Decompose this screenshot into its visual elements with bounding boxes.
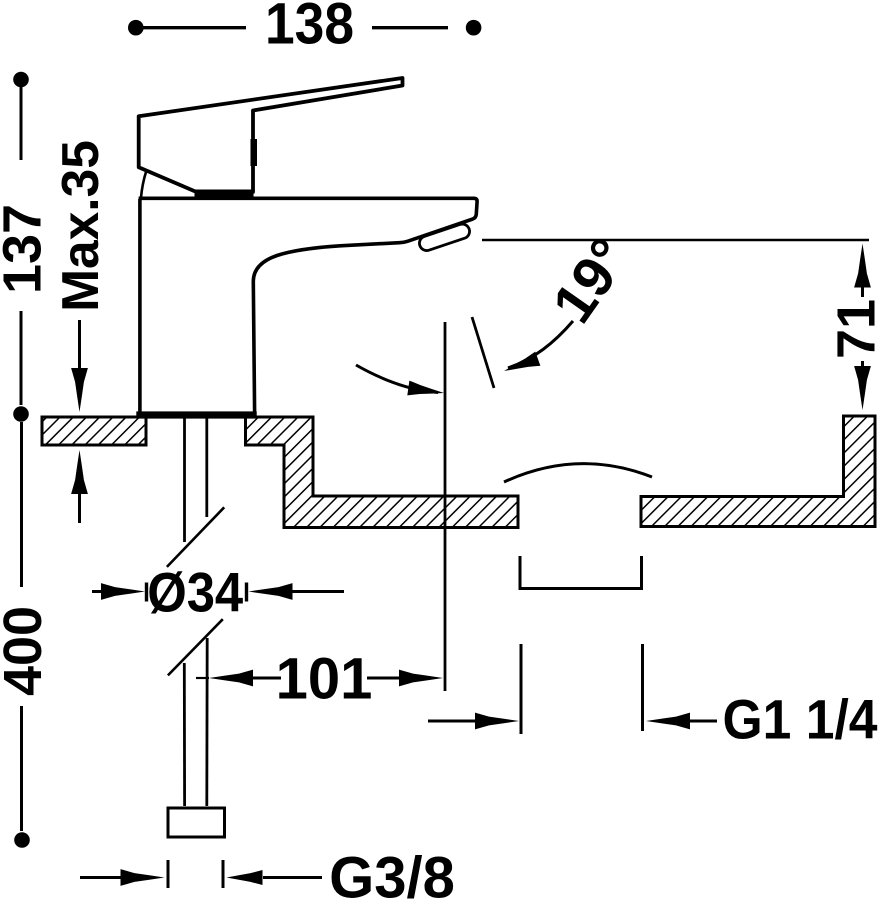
dimension G3/8 right tick [222, 860, 225, 888]
swivel arc arrowhead [407, 381, 445, 401]
dimension O34 right tick [245, 583, 248, 602]
counter left slab [42, 417, 146, 445]
dimension O34 left shaft [92, 590, 104, 593]
dimension 71 top shaft [861, 283, 864, 297]
svg-text:71: 71 [827, 299, 879, 359]
dimension O34 right arrowhead [249, 583, 293, 600]
dimension 138 left dot [128, 20, 144, 36]
counter right stepped section [246, 417, 519, 528]
swivel arc [356, 365, 438, 393]
dimension G3/8 left tick [167, 860, 170, 888]
svg-text:Max.35: Max.35 [51, 140, 109, 312]
faucet base bar [136, 411, 256, 418]
dimension 400 upper line [20, 422, 23, 587]
dimension 400 lower line [20, 706, 23, 831]
dimension 138 left line [142, 26, 246, 29]
dimension G1 1/4 left arrow shaft [428, 720, 479, 723]
Max.35 arrow shaft down [78, 320, 81, 374]
faucet handle lever [139, 78, 403, 192]
19 deg leader arc [508, 321, 573, 368]
handle bottom gap bar [195, 190, 254, 198]
dimension 101 right shaft [367, 677, 403, 680]
dimension G3/8 left arrowhead [121, 869, 165, 886]
drain pipe left line [520, 644, 523, 734]
outlet height reference line [482, 239, 869, 242]
drain pipe right line [641, 644, 644, 731]
svg-text:Ø34: Ø34 [147, 561, 243, 624]
dimension 71 bottom shaft [861, 361, 864, 371]
tilted stream line 19 deg [472, 317, 494, 388]
hose end connector [168, 808, 225, 837]
dimension 71 top arrowhead [854, 244, 871, 288]
counter thickness arrowhead up [71, 450, 88, 494]
dimension G3/8 right arrowhead [227, 870, 263, 885]
dimension 138 right dot [466, 20, 482, 36]
handle right clip mark [251, 139, 258, 166]
dimension 137 top dot [13, 72, 29, 88]
dimension G1 1/4 right arrowhead [646, 713, 690, 730]
dimension 137 upper line [20, 87, 23, 160]
dimension G3/8 right shaft [263, 876, 322, 879]
Max.35 arrowhead down [71, 368, 88, 412]
faucet body top edge and spout [139, 198, 478, 412]
svg-text:138: 138 [265, 0, 354, 57]
svg-text:G1 1/4: G1 1/4 [723, 688, 878, 751]
dimension 137 lower line [20, 311, 23, 405]
dimension 71 bottom arrowhead [854, 366, 871, 410]
supply hose right line lower [205, 638, 208, 806]
aerator [418, 222, 472, 252]
handle skirt curve [141, 171, 146, 197]
dimension O34 left arrowhead [101, 583, 145, 600]
hose break slash lower [168, 619, 223, 675]
dimension 101 left shaft [249, 677, 281, 680]
dimension O34 left tick [145, 583, 148, 602]
svg-text:137: 137 [0, 204, 52, 294]
dimension G1 1/4 left arrowhead [475, 713, 519, 730]
dimension 138 right line [372, 26, 448, 29]
svg-text:G3/8: G3/8 [329, 846, 455, 900]
dimension 101 right arrowhead [399, 670, 443, 687]
counter thickness arrow shaft [78, 490, 81, 523]
counter right slab and column [641, 416, 875, 527]
dimension 101 left arrowhead [209, 670, 253, 687]
basin bottom arc [504, 464, 652, 482]
dimension 400 bottom dot [14, 832, 30, 848]
dimension G3/8 left shaft [80, 876, 124, 879]
supply hose left line upper [183, 418, 186, 542]
hose break slash upper [167, 507, 224, 567]
supply hose left line lower [183, 663, 186, 806]
svg-text:101: 101 [276, 647, 373, 712]
svg-text:400: 400 [0, 606, 53, 696]
dimension G1 1/4 right shaft [686, 720, 717, 723]
drain flange U shape [520, 556, 642, 589]
water stream centerline [444, 322, 447, 691]
19 deg leader arrowhead [501, 352, 540, 378]
shared dot at counter level [13, 406, 29, 422]
faucet body left edge [138, 199, 142, 414]
supply hose right line upper [205, 418, 208, 517]
dimension O34 right shaft [290, 590, 344, 593]
dimension 101 nib [196, 677, 209, 679]
